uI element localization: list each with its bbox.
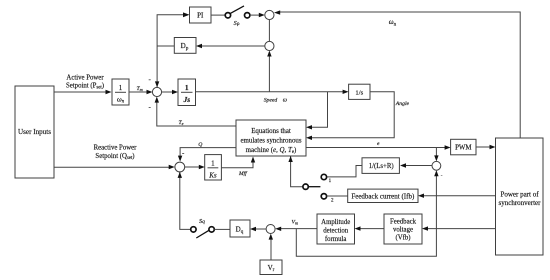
svg-text:-: - xyxy=(182,149,185,157)
selector contact 2 xyxy=(321,194,326,199)
svg-text:Mff: Mff xyxy=(238,170,248,177)
svg-text:1: 1 xyxy=(185,83,189,92)
svg-text:Sρ: Sρ xyxy=(234,20,240,27)
svg-text:Vm: Vm xyxy=(292,220,299,226)
svg-text:Feedback: Feedback xyxy=(390,219,417,226)
wire arrow into PI xyxy=(183,12,190,17)
wire C2 to Dp xyxy=(196,44,265,48)
block PI xyxy=(190,7,212,23)
block amplitude detection formula xyxy=(317,214,355,244)
wire Mff xyxy=(221,157,255,168)
block Dq xyxy=(230,220,250,237)
svg-text:2: 2 xyxy=(331,198,334,203)
wire Te feedback xyxy=(155,97,236,126)
block feedback voltage (Vfb) xyxy=(384,214,422,244)
block 1/Js xyxy=(178,79,196,106)
svg-text:Feedback current (Ifb): Feedback current (Ifb) xyxy=(351,192,415,200)
summing junction C2 xyxy=(265,41,274,50)
block Vr xyxy=(260,260,282,275)
wire speed line xyxy=(196,90,349,94)
svg-text:PI: PI xyxy=(197,12,204,20)
wire C3 to 1/Js xyxy=(162,90,178,94)
svg-text:Ks: Ks xyxy=(208,172,217,180)
svg-text:-: - xyxy=(441,174,443,179)
block power part of synchronverter xyxy=(496,138,544,255)
summing junction C1 xyxy=(265,10,274,19)
block User Inputs xyxy=(15,86,54,178)
svg-text:Amplitude: Amplitude xyxy=(321,219,350,226)
wire power to Vfb xyxy=(422,226,496,230)
svg-text:-: - xyxy=(149,103,152,111)
svg-text:1/s: 1/s xyxy=(355,89,363,96)
wire wn feedback xyxy=(274,10,520,138)
svg-text:Te: Te xyxy=(179,120,184,126)
wire power to Ifb xyxy=(418,194,496,198)
svg-text:Setpoint (Qset): Setpoint (Qset) xyxy=(95,153,134,161)
svg-text:Reactive Power: Reactive Power xyxy=(94,145,138,152)
wire PI to switch Sp xyxy=(211,14,225,16)
svg-text:voltage: voltage xyxy=(393,227,413,234)
svg-text:emulates synchronous: emulates synchronous xyxy=(240,138,301,145)
wire pole arrow into equations bottom xyxy=(288,156,292,162)
wire PWM to power xyxy=(476,145,496,149)
svg-text:1/(Ls+R): 1/(Ls+R) xyxy=(369,163,394,170)
wire Q feedback xyxy=(178,148,236,162)
svg-text:machine (e, Q, Te): machine (e, Q, Te) xyxy=(246,147,297,155)
svg-text:Q: Q xyxy=(198,142,202,148)
selector contact 1 xyxy=(321,174,326,179)
wire Tm xyxy=(129,90,153,94)
wire droop branch C4 to Sq xyxy=(178,172,191,230)
label Active Power Setpoint (Pset) xyxy=(66,75,104,91)
svg-text:Tm: Tm xyxy=(137,86,143,92)
svg-text:Setpoint (Pset): Setpoint (Pset) xyxy=(66,83,104,91)
wire Vr to C6 xyxy=(269,234,273,260)
label Reactive Power Setpoint (Qset) xyxy=(94,145,138,162)
summing junction C4 xyxy=(175,162,185,172)
wire Vm to C6 xyxy=(275,227,317,231)
svg-text:ω: ω xyxy=(283,98,287,104)
wire arrow down into C3 top xyxy=(155,81,159,87)
svg-text:ωn: ωn xyxy=(389,19,397,27)
svg-text:Sq: Sq xyxy=(199,218,205,225)
wire Vfb to amplitude xyxy=(355,226,385,230)
wire e output to PWM xyxy=(306,145,451,149)
svg-text:1: 1 xyxy=(211,160,215,168)
wire Sp to C1 xyxy=(250,13,265,17)
block Dp xyxy=(174,38,196,54)
svg-text:-: - xyxy=(149,76,152,84)
block Feedback current (Ifb) xyxy=(348,189,418,202)
wire angle feedback xyxy=(306,92,394,140)
block PWM xyxy=(451,139,476,155)
block 1/Ks xyxy=(205,155,222,180)
wire Qset xyxy=(54,165,175,169)
block 1/(Ls+R) xyxy=(362,158,399,174)
wire Vm loop to C5 xyxy=(296,170,438,256)
svg-text:1: 1 xyxy=(119,84,123,92)
svg-text:Active Power: Active Power xyxy=(66,75,104,82)
label Speed w xyxy=(264,98,287,104)
block 1/wn xyxy=(112,79,129,105)
wire C4 to 1/Ks xyxy=(185,165,205,169)
wire Sq to Dq xyxy=(214,228,230,230)
selector switch pole xyxy=(291,157,321,190)
block equations xyxy=(236,120,306,156)
wire Dp to node xyxy=(157,45,174,47)
wire C1 to C2 xyxy=(268,20,270,42)
summing junction C6 xyxy=(266,225,275,234)
wire C5 to Ls+R xyxy=(400,163,432,167)
switch Sp xyxy=(225,6,250,18)
wire node to PI xyxy=(157,15,183,88)
summing junction C3 xyxy=(152,87,161,96)
wire speed branch up to C2 xyxy=(267,51,271,92)
svg-text:Equations that: Equations that xyxy=(251,128,291,135)
svg-text:Angle: Angle xyxy=(395,101,410,107)
switch Sq xyxy=(191,227,215,238)
wire Ls+R to contact1 xyxy=(327,166,362,177)
wire e branch down to C5 xyxy=(434,148,438,162)
svg-text:User Inputs: User Inputs xyxy=(18,128,51,136)
svg-text:(Vfb): (Vfb) xyxy=(395,235,410,242)
svg-text:Power part of: Power part of xyxy=(500,191,539,199)
svg-text:detection: detection xyxy=(323,228,349,235)
svg-text:formula: formula xyxy=(325,236,347,243)
wire Ifb to contact2 xyxy=(327,195,348,197)
svg-text:1: 1 xyxy=(329,179,332,184)
svg-text:e: e xyxy=(377,141,380,147)
svg-text:synchronverter: synchronverter xyxy=(499,199,542,207)
svg-text:Speed: Speed xyxy=(264,98,278,104)
wire Pset xyxy=(54,90,112,94)
wire speed branch to equations box xyxy=(306,92,328,130)
wire C6 to Dq xyxy=(250,227,266,231)
svg-text:PWM: PWM xyxy=(455,145,471,152)
block 1/s xyxy=(349,84,370,99)
svg-text:Js: Js xyxy=(182,95,190,104)
summing junction C5 xyxy=(432,161,441,170)
